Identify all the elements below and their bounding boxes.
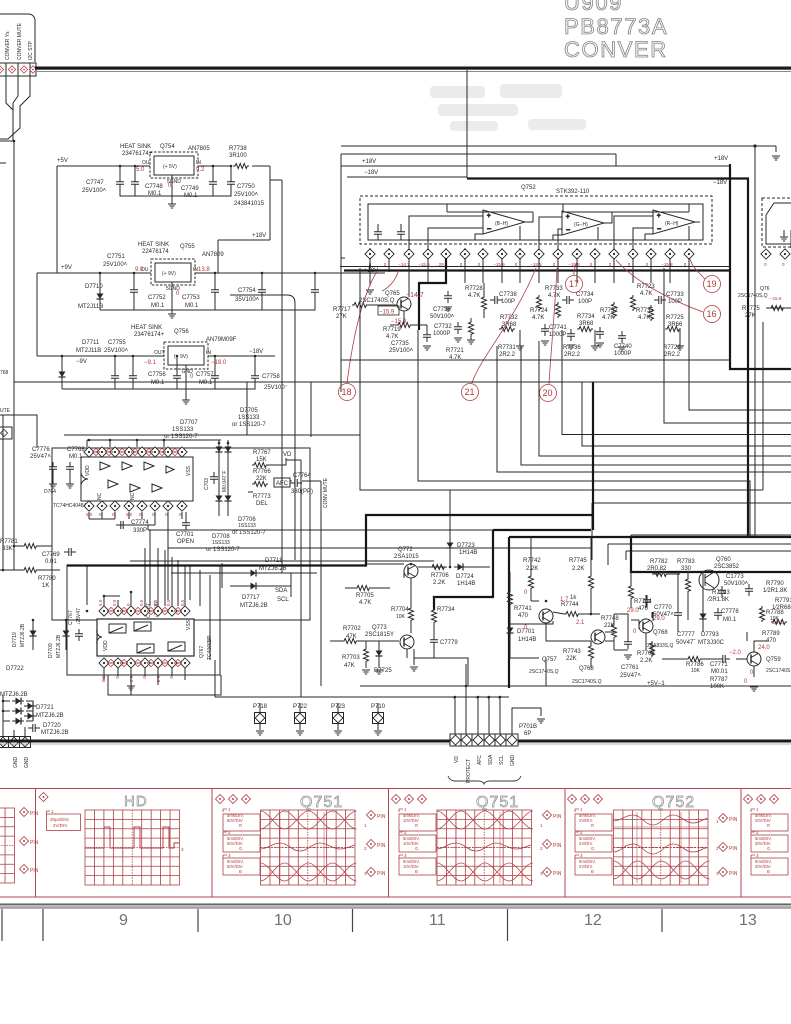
svg-text:−15.9: −15.9 <box>379 310 395 316</box>
svg-text:243841015: 243841015 <box>234 201 265 207</box>
node callout 16 <box>704 306 721 323</box>
red leader from Q765 <box>382 269 399 291</box>
svg-text:Q752: Q752 <box>652 794 695 811</box>
svg-text:R7743: R7743 <box>563 649 581 655</box>
svg-text:1SS133: 1SS133 <box>212 540 230 546</box>
svg-text:R7708: R7708 <box>637 651 655 657</box>
panel Q751 b <box>391 794 561 885</box>
svg-text:4.7K: 4.7K <box>640 291 652 297</box>
svg-text:(− 9V): (− 9V) <box>174 354 188 360</box>
svg-text:10: 10 <box>274 912 292 929</box>
resistor R7706 2.2K <box>430 565 446 570</box>
wire route 12 <box>608 544 791 565</box>
svg-text:50V100˄: 50V100˄ <box>724 581 749 587</box>
svg-text:B: B <box>591 869 594 874</box>
svg-text:Q757: Q757 <box>542 657 557 663</box>
svg-text:C7750: C7750 <box>237 184 255 190</box>
diode pair D7706 <box>216 492 223 504</box>
svg-text:0.5: 0.5 <box>153 599 158 606</box>
svg-text:4.7K: 4.7K <box>386 334 398 340</box>
svg-text:Q752: Q752 <box>521 185 536 191</box>
svg-text:R7705: R7705 <box>356 593 374 599</box>
svg-text:0.01: 0.01 <box>45 559 57 565</box>
svg-text:VDD: VDD <box>103 640 109 651</box>
svg-text:OU: OU <box>142 160 150 166</box>
svg-text:1000P: 1000P <box>433 331 450 337</box>
svg-text:M0.1: M0.1 <box>151 303 165 309</box>
svg-text:5.0: 5.0 <box>136 167 145 173</box>
wire bottom bus <box>89 512 186 548</box>
svg-text:MTZJ6.2B: MTZJ6.2B <box>0 692 28 698</box>
svg-text:C7764: C7764 <box>293 473 311 479</box>
wire AFC out <box>290 481 321 686</box>
svg-text:D7705: D7705 <box>240 408 258 414</box>
svg-text:25V47˄: 25V47˄ <box>30 454 51 460</box>
svg-text:Q772: Q772 <box>398 547 413 553</box>
svg-text:C7735: C7735 <box>391 341 409 347</box>
svg-text:3R100: 3R100 <box>229 153 247 159</box>
svg-text:Q76: Q76 <box>760 286 770 292</box>
capacitor C7756 <box>173 371 181 383</box>
svg-text:B: B <box>239 869 242 874</box>
svg-text:2SC1740S,Q: 2SC1740S,Q <box>738 293 768 299</box>
svg-text:AN7805: AN7805 <box>188 146 210 152</box>
svg-text:20: 20 <box>543 388 553 398</box>
capacitor C7747 <box>116 177 124 189</box>
svg-text:R: R <box>415 823 418 828</box>
svg-text:1H14B: 1H14B <box>459 550 477 556</box>
internal caps <box>374 227 382 239</box>
svg-text:−14.7: −14.7 <box>406 292 424 299</box>
svg-text:2V/DIV.: 2V/DIV. <box>53 823 68 828</box>
capacitor C7732 1000P <box>454 322 462 334</box>
capacitor C7740 1000P <box>618 331 626 343</box>
svg-text:D7723: D7723 <box>457 543 475 549</box>
svg-text:25V47˄: 25V47˄ <box>620 673 641 679</box>
svg-text:Q765: Q765 <box>385 291 400 297</box>
svg-text:3R68: 3R68 <box>579 321 594 327</box>
svg-text:or 1SS120-7: or 1SS120-7 <box>206 547 240 553</box>
svg-text:SCL: SCL <box>277 597 289 603</box>
svg-text:1K: 1K <box>42 583 49 589</box>
svg-text:D7711: D7711 <box>82 340 100 346</box>
svg-text:or 1SS120-7: or 1SS120-7 <box>232 530 266 536</box>
svg-text:2.2K: 2.2K <box>526 566 538 572</box>
svg-text:35V100˄: 35V100˄ <box>235 297 260 303</box>
svg-text:UTE: UTE <box>0 408 11 414</box>
caps under pins <box>567 329 575 341</box>
panel Q751 a <box>215 794 385 885</box>
svg-text:D7793: D7793 <box>701 632 719 638</box>
IC bottom pin row <box>84 501 187 511</box>
wires q759 <box>736 632 768 677</box>
svg-text:+5V−1: +5V−1 <box>647 681 665 687</box>
strip outer border <box>0 789 791 898</box>
svg-text:22K: 22K <box>604 623 615 629</box>
svg-text:R7791: R7791 <box>775 598 791 604</box>
svg-text:Q759: Q759 <box>766 657 781 663</box>
svg-text:1SS133: 1SS133 <box>238 523 256 529</box>
svg-text:R7725: R7725 <box>666 315 684 321</box>
red pin dots top <box>92 448 178 455</box>
svg-text:AFC: AFC <box>477 755 483 765</box>
wire -9V rail <box>37 355 275 357</box>
svg-text:D7710: D7710 <box>85 284 103 290</box>
capacitor C7749 <box>227 177 235 189</box>
wire -18V right drop <box>467 179 748 538</box>
transistor Q759 <box>747 652 761 666</box>
svg-text:VD: VD <box>454 756 460 763</box>
svg-text:−2.0: −2.0 <box>729 650 742 656</box>
section box <box>67 565 220 675</box>
svg-text:C7749: C7749 <box>181 186 199 192</box>
red callout box -15.9 <box>378 306 399 315</box>
svg-text:R7745: R7745 <box>569 558 587 564</box>
svg-text:(R−H): (R−H) <box>665 221 679 227</box>
resistor vert under pin6 <box>469 320 474 336</box>
svg-text:+5V: +5V <box>57 158 68 164</box>
svg-text:100P: 100P <box>578 299 592 305</box>
wires around Q767 <box>104 548 185 695</box>
svg-text:330P: 330P <box>133 528 147 534</box>
connector J top-left outline <box>0 14 37 141</box>
svg-text:GND: GND <box>510 755 516 767</box>
wire to P701 bus <box>215 658 791 697</box>
svg-text:Q751: Q751 <box>300 794 343 811</box>
IC U D764 TC74HC4048AP body <box>44 457 193 509</box>
wire route 8 <box>664 268 791 423</box>
red pin labels top <box>98 599 185 606</box>
IC top pin row <box>84 447 187 457</box>
node callout 19 <box>704 276 721 293</box>
capacitor C7754 <box>311 285 319 297</box>
svg-text:HEAT SINK: HEAT SINK <box>120 144 151 150</box>
wire +5V rail <box>57 165 270 167</box>
svg-text:GND: GND <box>24 757 30 769</box>
svg-text:22476174: 22476174 <box>142 249 169 255</box>
transistor Q760 2SC3852 big <box>699 570 719 590</box>
resistor R7738 3R100 <box>233 164 249 169</box>
wire left long 1 <box>148 529 493 531</box>
svg-text:2R2.2: 2R2.2 <box>499 352 516 358</box>
svg-text:C7758: C7758 <box>262 374 280 380</box>
svg-text:25V100˄: 25V100˄ <box>103 262 128 268</box>
svg-text:100K: 100K <box>710 684 724 690</box>
svg-text:33K: 33K <box>2 546 13 552</box>
transistor Q757 <box>539 609 553 623</box>
svg-text:D7718: D7718 <box>265 558 283 564</box>
svg-text:C7734: C7734 <box>576 292 594 298</box>
svg-text:P701B: P701B <box>519 724 537 730</box>
svg-text:50V100˄: 50V100˄ <box>430 314 455 320</box>
svg-text:MTZJ6.2B: MTZJ6.2B <box>36 713 64 719</box>
wire top bus <box>87 440 221 447</box>
capacitor C7755 <box>111 371 119 383</box>
svg-text:MTZJ6.2B: MTZJ6.2B <box>56 634 62 658</box>
wires bottom right <box>510 574 688 686</box>
svg-text:1SS133: 1SS133 <box>172 427 194 433</box>
svg-text:C7740: C7740 <box>614 344 632 350</box>
svg-text:C1773: C1773 <box>726 574 744 580</box>
svg-text:C7761: C7761 <box>621 665 639 671</box>
svg-text:4.7K: 4.7K <box>602 315 614 321</box>
svg-text:D764: D764 <box>44 489 56 495</box>
capacitor C7768 M0.1 <box>66 462 74 474</box>
svg-text:4.7K: 4.7K <box>532 315 544 321</box>
capacitor C7752 <box>211 285 219 297</box>
svg-text:18: 18 <box>342 387 352 397</box>
capacitor C7734 100P <box>562 296 574 304</box>
svg-text:R7780: R7780 <box>38 576 56 582</box>
gate triangles <box>100 462 174 492</box>
panel HD <box>39 792 184 885</box>
svg-text:⁄2R1.8K: ⁄2R1.8K <box>706 597 729 603</box>
IC dashed outline <box>360 196 712 244</box>
capacitor C7751 <box>130 285 138 297</box>
svg-text:27K: 27K <box>336 314 347 320</box>
wire left long 3 <box>130 560 434 562</box>
svg-text:Q755: Q755 <box>180 244 195 250</box>
svg-text:1⁄2R1.8K: 1⁄2R1.8K <box>763 588 787 594</box>
svg-text:M0.047ˈF: M0.047ˈF <box>222 471 228 492</box>
wire 466 down from above <box>465 664 467 734</box>
diode D7717 <box>247 583 259 590</box>
capacitor C7733 100P <box>654 296 666 304</box>
svg-text:C7741: C7741 <box>549 325 567 331</box>
svg-text:5.0: 5.0 <box>112 599 117 606</box>
svg-text:Q756: Q756 <box>174 329 189 335</box>
svg-text:M0.1: M0.1 <box>723 617 737 623</box>
regulator U Q754 AN7805 <box>142 152 201 208</box>
box hint right lower <box>790 230 791 248</box>
svg-text:25V100˄: 25V100˄ <box>389 348 414 354</box>
bleed smudges <box>430 84 586 131</box>
svg-text:47K: 47K <box>346 634 357 640</box>
svg-text:2.2K: 2.2K <box>572 566 584 572</box>
capacitor C7779 <box>430 635 438 647</box>
svg-text:R7706: R7706 <box>431 573 449 579</box>
svg-text:6P: 6P <box>524 731 531 737</box>
svg-text:0.5: 0.5 <box>180 599 185 606</box>
svg-text:2SA833S,Q: 2SA833S,Q <box>647 643 674 649</box>
diode D7710 MTZJ11B <box>97 290 104 302</box>
svg-text:OUT: OUT <box>154 350 165 356</box>
svg-text:VD: VD <box>283 452 292 458</box>
svg-text:25V100˄: 25V100˄ <box>234 192 259 198</box>
svg-text:4.7K: 4.7K <box>548 293 560 299</box>
node AFC box <box>274 478 290 487</box>
capacitor C7753 <box>258 285 266 297</box>
red circled numbers and leaders <box>339 259 721 402</box>
svg-text:C7769: C7769 <box>42 552 60 558</box>
svg-text:D7717: D7717 <box>242 595 260 601</box>
svg-text:C7748: C7748 <box>145 184 163 190</box>
svg-text:OPEN: OPEN <box>177 539 194 545</box>
svg-text:47K: 47K <box>344 663 355 669</box>
diode D7711 MTZJ11B <box>59 368 66 380</box>
svg-text:C7752: C7752 <box>148 295 166 301</box>
capacitor C7761 25V47 <box>624 637 632 649</box>
svg-text:VSS: VSS <box>186 465 192 476</box>
svg-text:0.5: 0.5 <box>166 599 171 606</box>
svg-text:VSS: VSS <box>186 619 192 630</box>
grid <box>261 810 356 885</box>
svg-text:9.2: 9.2 <box>196 167 205 173</box>
svg-text:M0.01: M0.01 <box>711 669 728 675</box>
svg-text:768: 768 <box>0 370 9 376</box>
wire left rails <box>37 166 57 356</box>
svg-text:C703: C703 <box>204 478 210 490</box>
svg-text:R7742: R7742 <box>523 558 541 564</box>
svg-text:Q767: Q767 <box>199 646 205 658</box>
svg-text:AN7809: AN7809 <box>202 252 224 258</box>
transistor Q765 <box>397 297 411 311</box>
svg-text:19: 19 <box>707 279 717 289</box>
svg-text:C7754: C7754 <box>238 288 256 294</box>
svg-text:13: 13 <box>739 912 757 929</box>
svg-text:C7768: C7768 <box>67 447 85 453</box>
bold feed wire <box>67 382 593 566</box>
wire route 10 <box>592 503 791 560</box>
svg-text:2SC1740S,Q: 2SC1740S,Q <box>529 669 559 675</box>
capacitor C7736 50V100 <box>444 291 452 303</box>
svg-text:330: 330 <box>681 566 692 572</box>
wire left long 2 <box>168 547 592 549</box>
svg-text:D7722: D7722 <box>6 666 24 672</box>
node callout 18 <box>339 384 356 401</box>
svg-text:B: B <box>415 869 418 874</box>
svg-text:VDD: VDD <box>85 465 91 476</box>
resistor R7719 4.7K <box>396 323 412 328</box>
svg-text:C7732: C7732 <box>434 324 452 330</box>
svg-text:D7725: D7725 <box>374 668 392 674</box>
wire sda scl <box>171 563 317 597</box>
inner wire frame <box>368 204 703 240</box>
svg-text:9: 9 <box>119 912 128 929</box>
svg-text:10K: 10K <box>396 614 406 620</box>
svg-text:−18V: −18V <box>249 349 263 355</box>
svg-text:100P: 100P <box>668 299 682 305</box>
wire pin drops <box>370 258 689 297</box>
svg-text:G: G <box>415 846 418 851</box>
svg-text:R7704: R7704 <box>391 607 409 613</box>
svg-text:Q768: Q768 <box>653 630 668 636</box>
svg-text:B: B <box>767 869 770 874</box>
svg-text:23476174+: 23476174+ <box>134 332 165 338</box>
capacitor C7777 50V47 <box>674 608 682 620</box>
svg-text:−9.1: −9.1 <box>144 360 157 366</box>
svg-text:C7767: C7767 <box>68 610 74 625</box>
section bold box <box>509 537 791 688</box>
diode D7724 1H14B <box>454 564 466 571</box>
svg-text:C7779: C7779 <box>440 640 458 646</box>
corner diamond <box>39 792 48 801</box>
svg-text:(+ 9V): (+ 9V) <box>162 271 176 277</box>
svg-text:2SC1740S: 2SC1740S <box>766 668 791 674</box>
svg-text:2SA1015: 2SA1015 <box>394 554 419 560</box>
diode D7701 1H14B <box>507 624 514 636</box>
top bus bar <box>35 67 791 70</box>
svg-text:−18.0: −18.0 <box>211 360 227 366</box>
svg-text:2SC1740S,Q: 2SC1740S,Q <box>572 679 602 685</box>
svg-text:2.1: 2.1 <box>576 620 585 626</box>
wire route 9 <box>689 262 791 410</box>
IC U Q767 TC4066BP body <box>97 619 194 656</box>
node callout 21 <box>462 384 479 401</box>
bottom tie wire <box>62 356 255 389</box>
svg-text:1H14B: 1H14B <box>457 581 475 587</box>
svg-text:R: R <box>239 823 242 828</box>
svg-text:D7709: D7709 <box>48 643 54 658</box>
diode D7723 1H14B <box>447 539 454 551</box>
wire route 6 <box>562 330 791 435</box>
svg-text:R7734: R7734 <box>577 314 595 320</box>
svg-text:M0.1: M0.1 <box>69 454 83 460</box>
svg-text:or 1SS120-7: or 1SS120-7 <box>232 422 266 428</box>
svg-text:Q760: Q760 <box>716 557 731 563</box>
dashed module box partial <box>762 198 791 247</box>
wire route 5 <box>539 341 791 456</box>
svg-text:24.0: 24.0 <box>758 645 770 651</box>
svg-text:C7736: C7736 <box>433 307 451 313</box>
svg-text:D7720: D7720 <box>43 723 61 729</box>
capacitor C7738 100P <box>490 296 502 304</box>
svg-text:25V100˄: 25V100˄ <box>82 188 107 194</box>
svg-text:+9V: +9V <box>61 265 72 271</box>
wire route 3 <box>497 346 791 472</box>
svg-text:(B−H): (B−H) <box>495 221 509 227</box>
svg-text:D7721: D7721 <box>36 705 54 711</box>
wire route 13 <box>626 551 791 560</box>
connector boxes bottom left <box>0 737 31 748</box>
panel divider lines <box>36 789 742 898</box>
svg-text:R: R <box>767 823 770 828</box>
scope boxes <box>223 814 260 875</box>
svg-text:U909: U909 <box>564 0 623 15</box>
svg-text:↓25V47: ↓25V47 <box>76 608 82 625</box>
bottom tie wire <box>100 273 315 310</box>
bus wires below pins <box>341 154 345 392</box>
svg-text:1k: 1k <box>570 595 577 601</box>
capacitor C7764 330 <box>290 479 302 487</box>
panel Q752 <box>567 794 737 885</box>
waveforms <box>261 811 357 883</box>
svg-text:C7738: C7738 <box>499 292 517 298</box>
brace <box>448 776 521 784</box>
capacitor C7757 <box>211 371 219 383</box>
svg-text:SCL: SCL <box>499 755 505 765</box>
svg-text:AFC: AFC <box>276 481 289 487</box>
svg-text:+18V: +18V <box>714 156 728 162</box>
svg-text:C7751: C7751 <box>107 254 125 260</box>
wire mute <box>0 141 37 448</box>
svg-text:10K: 10K <box>691 668 701 674</box>
connector stubs P718 P722 P723 P710 <box>253 703 386 735</box>
svg-text:MT3J30C: MT3J30C <box>698 640 725 646</box>
svg-text:CONVER Ys: CONVER Ys <box>5 31 11 60</box>
wire route 11 <box>631 535 791 560</box>
svg-text:R7736: R7736 <box>563 345 581 351</box>
svg-text:+18V: +18V <box>362 159 376 165</box>
connector P701B 6P <box>215 664 545 784</box>
svg-text:2SC1815Y: 2SC1815Y <box>365 632 394 638</box>
capacitor C7758 <box>251 371 259 383</box>
svg-text:PB8773A: PB8773A <box>564 14 668 39</box>
bold pin5 drop <box>419 258 446 330</box>
svg-text:2R2.2: 2R2.2 <box>564 352 581 358</box>
svg-text:R7783: R7783 <box>677 559 695 565</box>
wire top feed y146 <box>341 146 776 152</box>
